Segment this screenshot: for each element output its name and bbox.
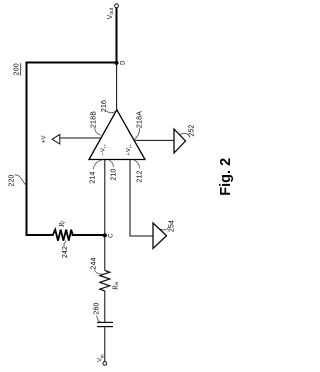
svg-text:216: 216 — [101, 100, 108, 112]
leader of 242 — [64, 241, 66, 246]
wire capacitor 260 to terminal Vin — [104, 327, 106, 361]
leader of 244 — [95, 270, 103, 275]
wire +V supply to op-amp left edge — [60, 137, 101, 139]
svg-text:C: C — [108, 233, 114, 238]
pin 214 inverting input wire (op-amp to node C) — [104, 160, 106, 236]
svg-text:+V: +V — [41, 135, 47, 143]
svg-text:210: 210 — [110, 168, 117, 180]
leader of 210 — [109, 160, 114, 167]
leader of 212 — [134, 160, 140, 169]
svg-text:214: 214 — [89, 171, 96, 183]
svg-text:218B: 218B — [90, 111, 97, 128]
svg-text:254: 254 — [168, 220, 175, 232]
wire resistor 244 to capacitor 260 — [104, 291, 106, 322]
svg-text:−Vi+: −Vi+ — [100, 144, 107, 156]
svg-text:252: 252 — [188, 124, 195, 136]
node C junction dot — [103, 233, 107, 237]
wire Vout to node D (thick) — [116, 8, 118, 64]
leader of 260 — [97, 315, 101, 322]
svg-text:220: 220 — [9, 174, 16, 186]
svg-text:244: 244 — [90, 257, 97, 269]
node D junction dot — [114, 61, 118, 65]
pin 212 non-inverting input wire (down then right to 254) — [130, 160, 153, 237]
leader of 220 — [15, 175, 27, 185]
svg-text:Fig. 2: Fig. 2 — [218, 158, 234, 196]
svg-text:Vout: Vout — [107, 7, 115, 19]
svg-text:+Vi+: +Vi+ — [126, 144, 133, 156]
svg-text:218A: 218A — [136, 111, 143, 128]
underline of 200 — [20, 63, 22, 75]
wire node C to resistor 244 — [104, 235, 106, 270]
svg-text:212: 212 — [136, 170, 143, 182]
leader of 218B — [95, 128, 101, 135]
svg-text:200: 200 — [14, 63, 21, 75]
wire feedback top horizontal D to left rail (thick) — [26, 62, 118, 64]
buffer/terminal 252 triangle — [174, 129, 186, 153]
leader of 218A — [134, 128, 140, 140]
leader of 214 — [94, 160, 102, 169]
svg-text:260: 260 — [93, 302, 100, 314]
wire feedback left rail vertical 220 (thick) — [26, 62, 28, 237]
terminal Vout (open circle) — [115, 4, 119, 8]
terminal Vin (open circle) — [103, 362, 107, 366]
wire op-amp right edge to buffer 252 — [134, 139, 174, 141]
capacitor 260 top plate — [97, 321, 113, 323]
svg-text:D: D — [121, 60, 127, 65]
power symbol +V triangle — [52, 134, 60, 144]
resistor 244 zigzag — [100, 271, 110, 292]
svg-text:Vin: Vin — [98, 354, 105, 362]
capacitor 260 bottom plate — [97, 326, 113, 328]
wire feedback bottom horizontal rail to resistor 242 (thick) — [26, 234, 54, 236]
svg-text:242: 242 — [62, 246, 69, 258]
leader of 252 — [180, 133, 190, 137]
leader of 254 — [160, 227, 169, 230]
buffer/terminal 254 triangle — [153, 223, 167, 248]
leader of 216 — [107, 111, 116, 113]
wire resistor 242 to node C (thick) — [72, 234, 106, 236]
resistor 242 zigzag (thick) — [53, 230, 73, 241]
wire node D to op-amp output apex (thin) — [116, 64, 118, 111]
op-amp U 210 triangle — [89, 110, 145, 160]
